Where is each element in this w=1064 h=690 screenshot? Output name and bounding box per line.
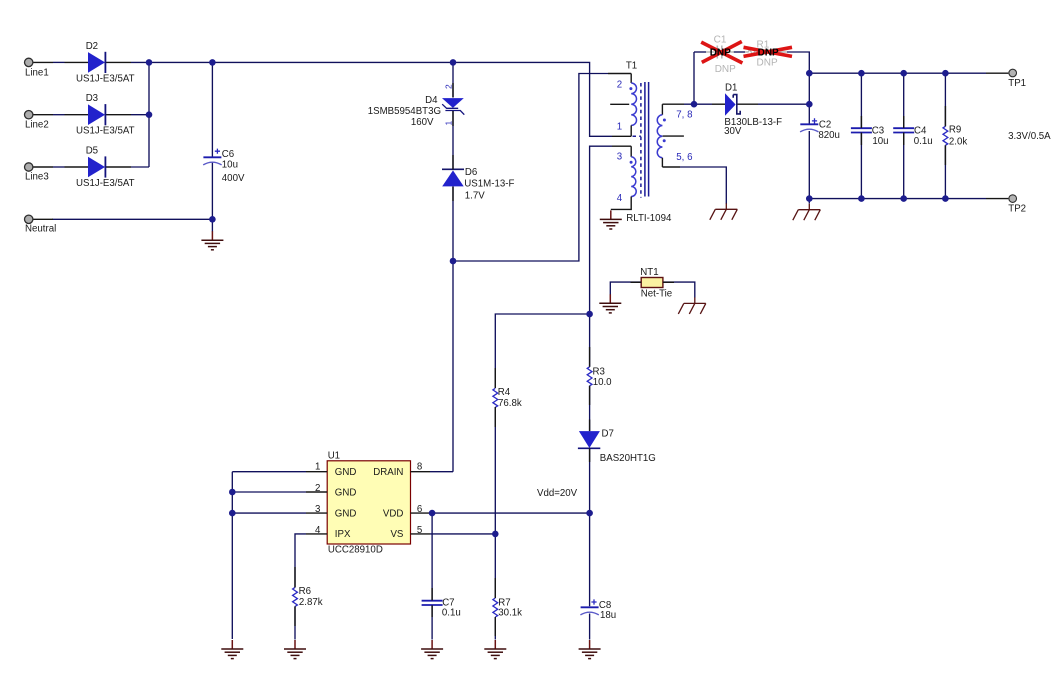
U1 pin 5 VS xyxy=(411,533,431,535)
node: GND pin3 join xyxy=(229,510,236,517)
svg-text:Line3: Line3 xyxy=(25,172,49,183)
diode D6 pins xyxy=(452,155,454,169)
svg-text:2: 2 xyxy=(315,483,320,494)
node: VS at R7 xyxy=(492,531,499,538)
svg-text:30.1k: 30.1k xyxy=(498,608,522,619)
node: neutral at C6 xyxy=(209,216,216,223)
svg-text:3: 3 xyxy=(617,151,622,162)
svg-text:NT1: NT1 xyxy=(640,267,658,278)
svg-text:4: 4 xyxy=(617,193,623,204)
svg-text:DNP: DNP xyxy=(757,57,778,68)
svg-text:RLTI-1094: RLTI-1094 xyxy=(626,213,672,224)
node: C3 top xyxy=(858,70,865,77)
wire: VDD net xyxy=(430,512,590,514)
T1 pin 2 xyxy=(608,73,631,75)
svg-text:C2: C2 xyxy=(819,120,831,131)
terminal TP2 xyxy=(986,195,1026,215)
svg-text:IPX: IPX xyxy=(335,529,351,540)
svg-text:Vdd=20V: Vdd=20V xyxy=(537,488,578,499)
terminal TP1 xyxy=(986,69,1026,89)
resistor R3 xyxy=(587,366,612,388)
terminal Neutral xyxy=(25,215,57,235)
node: GND pin2 join xyxy=(229,489,236,496)
svg-text:D2: D2 xyxy=(86,41,98,52)
svg-text:DNP: DNP xyxy=(715,64,736,75)
node: R3/R4 tap xyxy=(586,311,593,318)
svg-text:10u: 10u xyxy=(222,160,238,171)
chassis ground at NT1 right xyxy=(678,297,706,314)
node: clamp top xyxy=(450,59,457,66)
svg-text:T1: T1 xyxy=(626,61,637,72)
capacitor C8 xyxy=(580,599,616,621)
T1 pin 3 xyxy=(612,145,631,147)
resistor R4 pins xyxy=(494,368,496,388)
svg-text:30V: 30V xyxy=(724,126,742,137)
diode D7 xyxy=(578,429,656,464)
svg-text:GND: GND xyxy=(335,508,357,519)
svg-text:DNP: DNP xyxy=(710,48,731,59)
node: C6 top xyxy=(209,59,216,66)
svg-text:TP2: TP2 xyxy=(1008,203,1026,214)
ground at R7 xyxy=(484,640,506,659)
wire: output bottom rail to TP2 xyxy=(809,198,986,200)
diode D2 xyxy=(76,41,135,85)
svg-text:10.0: 10.0 xyxy=(593,377,612,388)
svg-text:18u: 18u xyxy=(600,610,616,621)
wire: D1 cathode to output xyxy=(758,103,809,105)
U1 pin 1 GND xyxy=(306,471,327,473)
svg-text:1: 1 xyxy=(444,121,454,126)
capacitor C4 xyxy=(893,125,932,147)
svg-text:VDD: VDD xyxy=(383,508,403,519)
svg-text:D3: D3 xyxy=(86,93,98,104)
svg-text:GND: GND xyxy=(335,487,357,498)
U1 pin 8 DRAIN xyxy=(411,471,431,473)
svg-text:US1J-E3/5AT: US1J-E3/5AT xyxy=(76,178,135,189)
svg-text:US1J-E3/5AT: US1J-E3/5AT xyxy=(76,73,135,84)
wire: IPX to R6 xyxy=(295,534,306,640)
node: C3 bottom xyxy=(858,195,865,202)
T1 secondary mid tap stub xyxy=(663,135,684,137)
wire: D3 output to bus xyxy=(131,114,149,116)
svg-text:DRAIN: DRAIN xyxy=(373,467,403,478)
svg-text:D4: D4 xyxy=(425,95,438,106)
DNP capacitor C1 xyxy=(701,35,742,75)
svg-text:C1: C1 xyxy=(714,35,727,46)
svg-text:5, 6: 5, 6 xyxy=(676,152,692,163)
capacitor C6 xyxy=(203,149,245,185)
node: D1 anode / snubber xyxy=(691,101,698,108)
diode D5 xyxy=(76,145,135,189)
svg-text:D6: D6 xyxy=(465,167,477,178)
capacitor C3 pins xyxy=(860,116,862,128)
resistor R7 pins xyxy=(494,578,496,598)
diode D1 xyxy=(712,83,782,138)
DNP resistor R1 xyxy=(744,40,793,69)
svg-text:R3: R3 xyxy=(593,366,605,377)
svg-text:0.1u: 0.1u xyxy=(914,136,933,147)
ground at C6 xyxy=(201,231,223,250)
node: C2 bottom rail xyxy=(806,195,813,202)
svg-text:Line2: Line2 xyxy=(25,120,49,131)
IC U1 UCC28910D xyxy=(306,451,430,556)
wire: R3 node down through D7 to VDD node xyxy=(589,314,591,640)
svg-text:Net-Tie: Net-Tie xyxy=(641,289,672,300)
U1 pin 2 GND xyxy=(306,491,327,493)
node: VDD at C7 xyxy=(429,510,436,517)
wire: C6 branch vertical xyxy=(211,62,213,231)
T1 pin 4 xyxy=(611,197,631,210)
resistor R7 xyxy=(493,598,522,619)
ground at T1 secondary return xyxy=(710,203,738,220)
svg-text:US1J-E3/5AT: US1J-E3/5AT xyxy=(76,126,135,137)
capacitor C2 xyxy=(800,118,840,141)
U1 pin 3 GND xyxy=(306,512,327,514)
svg-text:0.1u: 0.1u xyxy=(442,607,461,618)
T1 secondary winding xyxy=(661,104,663,115)
chassis ground at C2 xyxy=(793,204,821,221)
capacitor C7 pins xyxy=(431,588,433,601)
diode D6 xyxy=(442,167,514,202)
svg-text:160V: 160V xyxy=(411,117,434,128)
ground at R6 xyxy=(284,640,306,659)
zener D4 pins xyxy=(452,83,454,98)
terminal Line1 xyxy=(25,58,89,78)
resistor R4 xyxy=(493,387,522,409)
wire: T1 pin 3 down to VS/R3 node xyxy=(590,146,612,314)
svg-text:400V: 400V xyxy=(222,173,245,184)
T1 pin 1 xyxy=(612,135,631,137)
wire: R9 branch xyxy=(944,73,946,198)
svg-text:3.3V/0.5A: 3.3V/0.5A xyxy=(1008,131,1051,142)
svg-text:TP1: TP1 xyxy=(1008,78,1026,89)
wire: vertical join of rectifier outputs xyxy=(148,62,150,167)
svg-text:R9: R9 xyxy=(949,124,961,135)
wire: U1 GND pins bus xyxy=(232,472,306,639)
svg-text:5: 5 xyxy=(417,525,422,536)
wire: R4 branch xyxy=(495,314,589,640)
svg-text:2: 2 xyxy=(444,84,454,89)
wire: clamp return to T1 pin 2 xyxy=(453,74,608,262)
resistor R9 pins xyxy=(944,106,946,126)
svg-text:6: 6 xyxy=(417,504,422,515)
node: D2 output join xyxy=(146,59,153,66)
svg-text:Line1: Line1 xyxy=(25,68,49,79)
svg-text:1SMB5954BT3G: 1SMB5954BT3G xyxy=(368,106,441,117)
wire: DNP snubber riser and top branch xyxy=(694,52,809,104)
T1 aux winding B xyxy=(630,146,632,157)
T1 core xyxy=(633,82,649,198)
svg-text:4: 4 xyxy=(315,525,321,536)
node: R9 top xyxy=(942,70,949,77)
svg-text:D1: D1 xyxy=(725,83,737,94)
wire: T1 secondary to D1 anode xyxy=(662,103,712,105)
svg-text:C6: C6 xyxy=(222,149,234,160)
svg-text:C3: C3 xyxy=(872,125,884,136)
svg-text:R6: R6 xyxy=(299,586,311,597)
terminal Line3 xyxy=(25,163,89,183)
terminal Line2 xyxy=(25,111,89,131)
node: C4 top xyxy=(900,70,907,77)
ground at NT1 left xyxy=(599,294,621,313)
wire: D5 output to bus xyxy=(131,166,149,168)
svg-text:D7: D7 xyxy=(602,429,614,440)
capacitor C7 xyxy=(422,597,461,618)
wire: black component pin segments xyxy=(295,83,945,636)
svg-text:D5: D5 xyxy=(86,145,98,156)
svg-text:U1: U1 xyxy=(328,451,340,462)
node: D1 cathode at C2 xyxy=(806,101,813,108)
resistor R6 xyxy=(293,586,323,608)
ground at U1 GND pins xyxy=(221,640,243,659)
node: C4 bottom xyxy=(900,195,907,202)
svg-text:2: 2 xyxy=(617,79,622,90)
diode D7 pins xyxy=(589,420,591,432)
resistor R3 pins xyxy=(589,347,591,367)
svg-text:VS: VS xyxy=(390,529,403,540)
svg-text:DNP: DNP xyxy=(758,48,779,59)
wire: C3 branch xyxy=(860,73,862,198)
svg-text:2.87k: 2.87k xyxy=(299,597,323,608)
svg-text:C4: C4 xyxy=(914,125,927,136)
svg-text:1.7V: 1.7V xyxy=(465,191,485,202)
node: D3 output join xyxy=(146,111,153,118)
svg-text:76.8k: 76.8k xyxy=(498,398,522,409)
svg-text:US1M-13-F: US1M-13-F xyxy=(464,178,514,189)
wire: C2 branch xyxy=(808,73,810,203)
wire: main HV bus from rectifiers to transformer xyxy=(131,62,612,136)
wire: clamp string vertical D4/D6 down to DRAIN xyxy=(430,62,453,471)
svg-text:1: 1 xyxy=(617,121,622,132)
ground at C8 xyxy=(579,640,601,659)
node: R9 bottom xyxy=(942,195,949,202)
wire: VS net xyxy=(430,533,495,535)
svg-text:UCC28910D: UCC28910D xyxy=(328,545,383,556)
svg-text:8: 8 xyxy=(417,461,422,472)
T1 primary winding A xyxy=(630,74,632,84)
ground at C7 xyxy=(421,640,443,659)
node: VDD at C8 xyxy=(586,510,593,517)
ground at T1 pin 4 xyxy=(600,210,622,229)
capacitor C3 xyxy=(851,125,889,147)
wire: output top rail to TP1 xyxy=(809,72,986,74)
svg-text:2.0k: 2.0k xyxy=(949,136,967,147)
svg-text:7, 8: 7, 8 xyxy=(676,110,692,121)
node: output rail top at C2 xyxy=(806,70,813,77)
svg-text:3: 3 xyxy=(315,504,320,515)
svg-text:Neutral: Neutral xyxy=(25,224,56,235)
wire: C7 branch xyxy=(431,513,433,639)
wire: C4 branch xyxy=(903,73,905,198)
svg-text:10u: 10u xyxy=(872,136,888,147)
zener D4 xyxy=(368,84,465,128)
wire: neutral rail xyxy=(52,218,212,220)
svg-text:GND: GND xyxy=(335,467,357,478)
U1 pin 6 VDD xyxy=(411,512,431,514)
node: clamp bottom xyxy=(450,258,457,265)
resistor R9 xyxy=(943,124,967,147)
wire: NT1 left and right xyxy=(610,282,695,297)
net-tie NT1 xyxy=(631,267,675,300)
resistor R6 pins xyxy=(294,567,296,587)
T1 primary mid tap stub xyxy=(610,103,629,105)
wire: secondary return 5,6 to ground xyxy=(662,167,726,204)
U1 pin 4 IPX xyxy=(306,533,327,535)
svg-text:BAS20HT1G: BAS20HT1G xyxy=(600,453,656,464)
diode D3 xyxy=(76,93,135,137)
svg-text:1: 1 xyxy=(315,461,320,472)
transformer T1 xyxy=(608,61,692,225)
svg-text:R4: R4 xyxy=(498,387,511,398)
svg-text:820u: 820u xyxy=(818,130,840,141)
capacitor C4 pins xyxy=(903,116,905,128)
